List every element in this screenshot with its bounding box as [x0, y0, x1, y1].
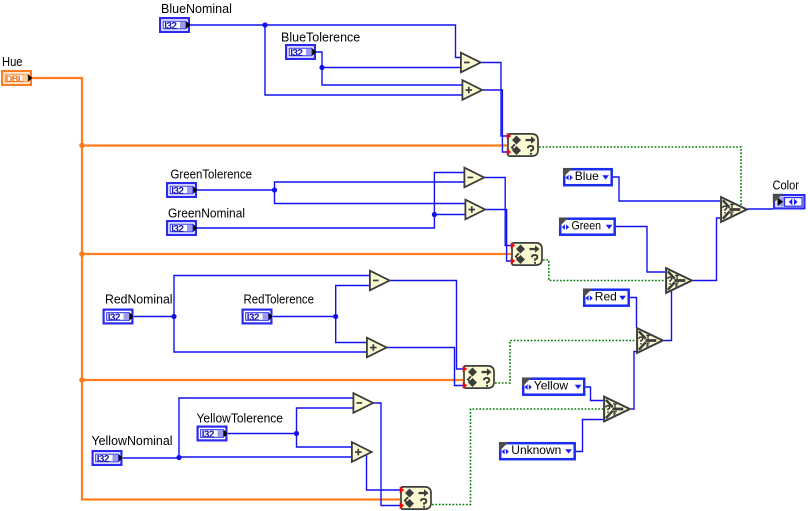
select4 yellow	[604, 397, 630, 422]
wire RedTolerence up branch to subtract bottom	[336, 286, 370, 317]
wire orange branch to red InRange	[82, 379, 463, 381]
add green	[465, 200, 485, 220]
wire blue add out to InRange lower	[482, 90, 507, 152]
wire boolean green InRange to select2	[543, 260, 665, 281]
wire RedNominal to subtract top	[134, 276, 370, 317]
enum constant Green	[559, 218, 615, 235]
subtract green	[464, 168, 484, 188]
wire BlueTolerence to add top	[316, 52, 462, 85]
svg-text:YellowNominal: YellowNominal	[92, 434, 173, 448]
wire BlueTolerence branch to subtract bottom	[322, 67, 460, 69]
wire RedNominal branch to add bottom	[174, 317, 367, 353]
junction BlueNominal	[262, 22, 267, 27]
wire orange branch to green InRange	[82, 253, 511, 255]
wire RedTolerence down branch to add top	[336, 317, 367, 343]
wire Green enum to select2 t	[616, 227, 665, 273]
svg-text:GreenTolerence: GreenTolerence	[171, 168, 253, 182]
wire Red enum to select3 t	[630, 298, 637, 329]
wire Unknown enum to select4 f	[576, 420, 603, 452]
coercion dot green lower	[511, 258, 516, 265]
wire green add out to InRange lower	[485, 210, 511, 262]
in range and coerce red	[464, 366, 494, 388]
svg-text:GreenNominal: GreenNominal	[168, 207, 245, 221]
select1 top	[721, 197, 747, 222]
wire YellowNominal to add bottom rail	[123, 457, 351, 458]
subtract red	[370, 271, 390, 291]
subtract blue	[461, 53, 481, 73]
svg-text:BlueNominal: BlueNominal	[161, 2, 232, 16]
junction orange at blue rail	[79, 143, 85, 149]
svg-text:RedNominal: RedNominal	[105, 293, 173, 307]
wire Yellow enum to select4 t	[586, 387, 604, 401]
wire GreenTolerence down branch to add top	[275, 190, 466, 204]
wire Hue orange trunk	[32, 78, 400, 500]
wire select4 out to select3 f	[631, 352, 637, 410]
wire YellowTolerence up branch to subtract bottom	[297, 408, 354, 434]
indicator Color	[773, 194, 805, 209]
wire select1 out to Color	[748, 208, 774, 210]
wire yellow subtract out to InRange lower	[374, 403, 401, 506]
junction YellowTolerence	[294, 431, 299, 436]
in range and coerce green	[512, 243, 542, 265]
select3 red	[637, 328, 663, 353]
junction orange at red rail	[79, 377, 85, 383]
control Hue DBL	[1, 70, 32, 86]
wire BlueNominal branch to add bottom	[265, 25, 462, 95]
add blue	[462, 80, 482, 100]
in range and coerce yellow	[401, 487, 431, 509]
svg-text:Green: Green	[572, 219, 602, 233]
svg-text:Hue: Hue	[2, 55, 23, 69]
wire GreenTolerence up branch to subtract bottom	[275, 182, 465, 190]
junction GreenNominal	[432, 212, 437, 217]
svg-text:BlueTolerence: BlueTolerence	[281, 31, 360, 45]
control GreenNominal I32	[166, 220, 197, 236]
coercion dot blue lower	[507, 149, 512, 156]
control YellowNominal I32	[92, 450, 123, 466]
in range and coerce blue	[508, 134, 538, 156]
svg-text:Red: Red	[595, 290, 617, 304]
wire boolean yellow InRange to select4	[432, 409, 603, 505]
wire green subtract out to InRange upper	[484, 178, 511, 246]
wire GreenNominal to subtract top	[197, 173, 464, 229]
enum constant Blue	[563, 168, 612, 185]
coercion dot red upper	[463, 366, 468, 373]
svg-text:Blue: Blue	[575, 169, 599, 183]
junction BlueTolerence	[319, 65, 324, 70]
junction orange at green rail	[79, 251, 85, 257]
svg-text:RedTolerence: RedTolerence	[244, 293, 315, 307]
coercion dot yellow upper	[400, 487, 405, 494]
svg-text:Color: Color	[773, 179, 800, 193]
wire red add out to InRange lower	[387, 348, 464, 386]
wire select2 out to select1 f	[693, 218, 720, 281]
wire blue subtract out to InRange upper	[481, 63, 508, 137]
control BlueTolerence I32	[285, 44, 316, 60]
wire orange branch to blue InRange	[82, 144, 507, 146]
wire yellow add out to InRange upper	[367, 453, 401, 490]
wire Blue enum to select1 t	[613, 177, 720, 201]
svg-text:Unknown: Unknown	[511, 443, 561, 457]
control RedNominal I32	[103, 309, 134, 325]
coercion dot blue upper	[507, 133, 512, 140]
svg-text:YellowTolerence: YellowTolerence	[197, 412, 284, 426]
wire YellowNominal up branch to subtract top	[179, 398, 353, 457]
add red	[367, 338, 387, 358]
wire BlueNominal to subtract top	[190, 25, 460, 58]
control BlueNominal I32	[159, 17, 190, 33]
wire GreenTolerence to junction	[197, 189, 275, 191]
wire boolean blue InRange to select1	[539, 147, 741, 205]
wire red subtract out to InRange upper	[390, 281, 464, 370]
junction YellowNominal	[176, 455, 181, 460]
add yellow	[352, 442, 372, 462]
coercion dot red lower	[463, 382, 468, 389]
coercion dot yellow lower	[400, 502, 405, 509]
wire RedTolerence to junction	[273, 316, 336, 318]
enum constant Yellow	[522, 378, 584, 395]
wire boolean red InRange to select3	[495, 341, 636, 384]
svg-text:Yellow: Yellow	[534, 379, 569, 393]
junction RedTolerence	[333, 314, 338, 319]
subtract yellow	[353, 393, 373, 413]
control GreenTolerence I32	[166, 182, 197, 198]
coercion dot green upper	[511, 242, 516, 249]
junction RedNominal	[171, 314, 176, 319]
wire YellowTolerence to junction	[228, 433, 297, 435]
wire select3 out to select2 f	[664, 291, 672, 341]
control RedTolerence I32	[242, 309, 273, 325]
junction GreenTolerence	[272, 187, 277, 192]
control YellowTolerence I32	[197, 426, 228, 442]
wire YellowTolerence down branch to add top	[297, 434, 352, 448]
enum constant Unknown	[499, 442, 575, 459]
enum constant Red	[583, 289, 629, 306]
select2 green	[666, 268, 692, 293]
wire GreenNominal branch to add bottom	[434, 214, 465, 216]
